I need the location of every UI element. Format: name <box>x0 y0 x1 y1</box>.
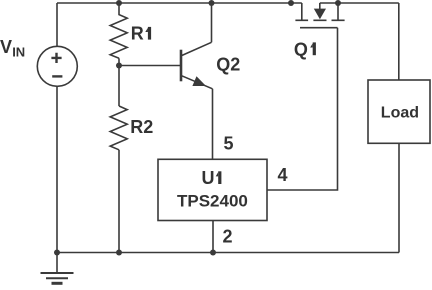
svg-text:4: 4 <box>278 165 288 185</box>
svg-text:TPS2400: TPS2400 <box>177 191 248 210</box>
junction node: R2 bottom on rail <box>116 250 122 256</box>
ground <box>41 253 74 284</box>
wire: top rail from VIN to Q1 source <box>57 2 302 4</box>
Q2 emitter arrow <box>192 76 206 86</box>
wire: bottom ground rail <box>57 252 399 254</box>
Q1 source lead <box>295 3 308 20</box>
Q1 body arrow <box>314 9 326 20</box>
svg-text:U: U <box>202 168 215 188</box>
svg-text:R2: R2 <box>130 117 153 137</box>
transistor Q1 (MOSFET) <box>295 3 344 28</box>
wire: Q2 collector vertical <box>211 3 213 42</box>
wire: left vertical from source bottom to ground rail <box>56 86 58 252</box>
junction node: R1 top on rail <box>116 0 122 6</box>
svg-text:Q: Q <box>294 39 308 59</box>
wire: R2 bottom to ground rail <box>118 150 120 253</box>
wire: base wire to Q2 <box>119 65 180 67</box>
svg-text:Load: Load <box>381 104 419 121</box>
wire: U1 pin 2 to bottom rail <box>212 221 214 253</box>
transistor Q2 (NPN) <box>181 42 213 89</box>
junction node: Q1 source on rail <box>288 0 294 6</box>
wire: U1 pin 4 to Q1 gate <box>267 28 338 190</box>
IC U1 TPS2400 <box>158 159 267 220</box>
wire: load to bottom rail <box>398 143 400 252</box>
Q1 body lead with arrow <box>313 3 326 20</box>
svg-text:V: V <box>0 37 12 57</box>
load box <box>368 80 430 143</box>
svg-text:2: 2 <box>223 226 233 246</box>
svg-text:Q2: Q2 <box>216 55 240 75</box>
resistor R2 <box>110 106 127 150</box>
junction node: Q1 drain on rail <box>335 0 341 6</box>
wire: left vertical from top rail to source top <box>56 3 58 46</box>
Q1 drain lead <box>332 3 345 20</box>
voltage source VIN <box>37 46 77 86</box>
junction node: pin 2 on rail <box>210 250 216 256</box>
wire: R1 to R2 with base tap <box>118 58 120 106</box>
resistor R1 <box>110 3 127 58</box>
svg-text:5: 5 <box>224 133 234 153</box>
junction node: Q2 collector on rail <box>209 0 215 6</box>
svg-text:IN: IN <box>12 45 25 60</box>
wire: top rail down to Load <box>398 3 400 80</box>
wire: top rail from Q1 body to load corner <box>320 2 399 4</box>
wire: Q2 emitter to U1 pin 5 <box>212 89 214 160</box>
Q1 gate bar <box>300 27 338 29</box>
junction node: ground <box>54 250 60 256</box>
svg-text:R: R <box>131 24 144 44</box>
junction node: R1/R2/base <box>116 63 122 69</box>
